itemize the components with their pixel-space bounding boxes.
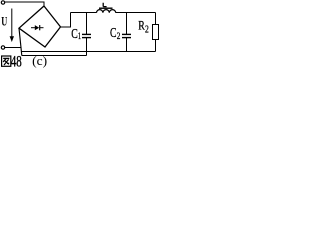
lower border wire under caption area	[22, 55, 87, 57]
inductor L label	[103, 3, 106, 7]
capacitor C2 top plate	[122, 33, 131, 35]
bottom rail wire	[21, 51, 155, 53]
capacitor C2 top lead	[126, 13, 128, 35]
terminal (bottom input)	[1, 46, 4, 49]
svg-text:2: 2	[117, 32, 121, 42]
svg-text:1: 1	[78, 32, 81, 42]
capacitor C2 bottom lead	[126, 38, 128, 52]
inductor L winding humps	[97, 10, 116, 13]
capacitor C1 bottom plate	[82, 37, 91, 39]
terminal (top input)	[1, 1, 4, 4]
capacitor C1 top lead	[86, 13, 88, 35]
resistor R2 bottom lead	[155, 40, 157, 52]
svg-text:C: C	[110, 26, 117, 41]
svg-text:48: 48	[11, 53, 22, 68]
diode D inside bridge: anode lead	[31, 27, 35, 29]
resistor R2 body	[153, 25, 159, 40]
svg-text:U: U	[1, 14, 7, 29]
wire bridge right corner to top rail	[61, 13, 71, 28]
wire top input to bridge top corner	[5, 2, 44, 7]
top rail wire (right corner riser to C1 tap)	[71, 12, 97, 14]
resistor R2 top lead	[155, 13, 157, 25]
wire bridge left corner down to bottom rail	[19, 28, 22, 55]
diode D cathode bar	[39, 25, 41, 30]
capacitor C1 bottom lead	[86, 38, 88, 56]
capacitor C1 top plate	[82, 33, 91, 35]
top rail wire (L to C2 tap to R2)	[116, 12, 156, 14]
inductor L iron core bar	[99, 7, 113, 9]
svg-text:C: C	[71, 27, 78, 42]
diode D triangle	[35, 25, 39, 30]
caption 图 glyph	[2, 56, 11, 66]
bridge rectifier diamond	[19, 6, 61, 47]
U polarity arrow head	[10, 36, 14, 42]
svg-text:(c): (c)	[32, 53, 47, 68]
wire bottom input to bridge left corner drop	[5, 47, 21, 49]
diode D cathode lead	[40, 27, 44, 29]
U polarity arrow shaft	[11, 9, 13, 38]
svg-text:2: 2	[145, 25, 149, 36]
capacitor C2 bottom plate	[122, 37, 131, 39]
